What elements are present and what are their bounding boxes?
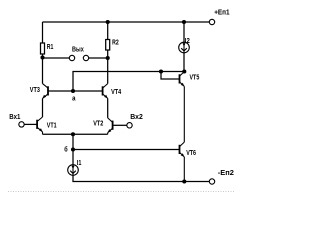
svg-text:а: а: [72, 96, 75, 103]
wire left branch to R1: [42, 22, 44, 43]
current source I2: [179, 38, 190, 53]
svg-text:VT3: VT3: [30, 87, 40, 94]
svg-text:R2: R2: [112, 40, 119, 47]
node a junction: [71, 89, 75, 93]
wire node b to VT6 base: [73, 149, 180, 151]
svg-text:VT4: VT4: [111, 89, 121, 96]
node junction emitter rail: [71, 132, 75, 136]
svg-text:-Еп2: -Еп2: [218, 170, 234, 177]
transistor VT1: [37, 117, 42, 134]
current source I1: [68, 160, 82, 175]
terminal +Ep1: [209, 9, 229, 24]
terminal output left: [69, 55, 74, 60]
wire R2 node down to VT4 collector: [107, 58, 109, 84]
node junction R2 bottom: [106, 56, 110, 60]
terminal input 2: [127, 114, 143, 128]
wire I2 branch from rail: [183, 22, 185, 42]
svg-text:б: б: [64, 145, 68, 153]
wire VT2 base to Vx2: [113, 124, 127, 126]
wire base line VT3-VT4: [48, 90, 102, 92]
svg-text:VT1: VT1: [47, 123, 57, 130]
wire output left segment: [43, 57, 70, 59]
wire VT4 emitter to VT2 collector: [107, 98, 109, 118]
svg-text:Вх2: Вх2: [130, 114, 143, 121]
node junction VT5 base: [159, 69, 163, 73]
wire VT3 emitter to VT1 collector: [42, 98, 44, 117]
page boundary dotted line: [8, 191, 234, 193]
wire R2 branch top: [107, 22, 109, 40]
wire node b down: [72, 134, 74, 149]
resistor R1: [41, 43, 54, 54]
wire I1 to bottom rail: [73, 175, 209, 181]
terminal output right: [83, 55, 88, 60]
svg-text:VT5: VT5: [190, 75, 200, 82]
transistor VT4: [103, 84, 108, 99]
transistor VT5: [180, 72, 185, 143]
svg-text:I1: I1: [77, 160, 82, 167]
node b junction: [71, 147, 75, 151]
wire emitter rail VT1-VT2: [43, 133, 108, 135]
wire Vx1 to VT1 base: [24, 123, 37, 125]
svg-text:Вх1: Вх1: [9, 114, 20, 121]
node junction rail R2: [106, 20, 110, 24]
svg-text:R1: R1: [47, 44, 54, 51]
wire node b to I1: [72, 150, 74, 165]
resistor R2: [106, 40, 119, 51]
node junction VT5 collector: [182, 69, 186, 73]
svg-text:Вых: Вых: [72, 46, 84, 53]
wire top rail: [43, 21, 210, 23]
wire output right segment: [89, 57, 108, 59]
node junction bottom rail: [182, 179, 186, 183]
wire R1 node down to VT3 collector: [42, 58, 44, 84]
wire node a up and right: [73, 72, 184, 92]
wire I2 bottom to node: [183, 53, 185, 72]
terminal -Ep2: [209, 170, 234, 184]
transistor VT2: [108, 118, 113, 134]
svg-text:I2: I2: [185, 38, 190, 45]
wire R2 to node: [107, 50, 109, 58]
node junction R1 bottom: [40, 55, 44, 59]
svg-text:+Еп1: +Еп1: [214, 9, 229, 16]
transistor VT3: [43, 84, 49, 99]
wire R1 to node: [42, 54, 44, 58]
svg-text:VT6: VT6: [186, 150, 196, 157]
wire VT5 base jog: [161, 72, 180, 80]
transistor VT6: [180, 142, 185, 181]
terminal input 1: [9, 114, 24, 127]
svg-text:VT2: VT2: [93, 120, 103, 127]
node junction rail I2: [182, 20, 186, 24]
